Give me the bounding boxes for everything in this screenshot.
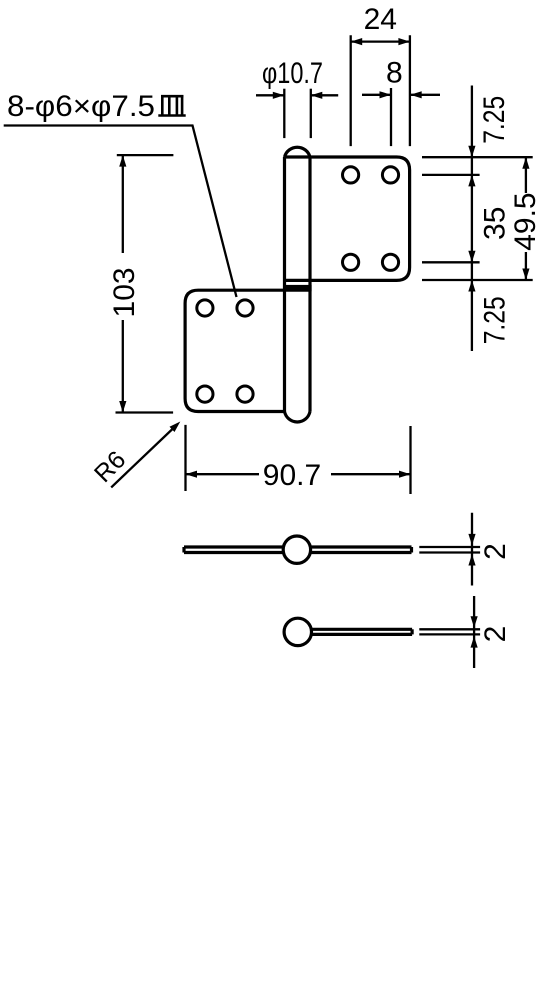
dimension 24 line	[351, 40, 410, 42]
svg-text:24: 24	[364, 3, 397, 36]
right extension line upper hole row	[422, 174, 480, 176]
hole top-leaf lower-left	[343, 254, 359, 270]
top leaf (flag plate) outline	[285, 157, 410, 280]
hole top-leaf upper-right	[382, 167, 398, 183]
svg-text:49.5: 49.5	[509, 192, 542, 250]
svg-text:7.25: 7.25	[478, 96, 511, 144]
svg-text:R6: R6	[89, 446, 131, 488]
svg-text:2: 2	[479, 626, 512, 643]
hole bottom-leaf lower-left	[197, 386, 213, 402]
section view 1 knuckle circle	[283, 536, 310, 563]
knuckle right edge	[308, 157, 311, 412]
hole top-leaf upper-left	[343, 167, 359, 183]
dimension 49.5 line	[525, 157, 527, 193]
dimension 103 extension lines	[117, 154, 174, 156]
section view 1 thickness 2 extension lines	[419, 546, 480, 548]
svg-text:8-φ6×φ7.5: 8-φ6×φ7.5	[7, 90, 155, 123]
svg-text:8: 8	[386, 57, 403, 90]
svg-text:35: 35	[479, 207, 512, 240]
countersunk (sara) symbol	[158, 95, 185, 116]
svg-text:2: 2	[479, 543, 512, 560]
knuckle top cap arc	[285, 147, 311, 157]
section view 2: flag leaf seen from end	[312, 628, 413, 631]
section view 1 thickness 2 dimension line	[471, 513, 473, 586]
section view 2 thickness 2 dimension line	[473, 596, 475, 668]
dimension 24 extension lines	[350, 35, 352, 146]
section view 2 thickness 2 extension lines	[419, 628, 480, 630]
dimension 8 line with outside arrows	[362, 94, 391, 96]
dimension 8 extension line	[390, 88, 392, 146]
dimension 103 line	[122, 155, 124, 253]
svg-text:7.25: 7.25	[479, 296, 512, 344]
radius R6 leader arrow	[111, 429, 173, 488]
dimension 90.7 extension lines	[184, 425, 186, 491]
bottom leaf outline	[185, 290, 310, 411]
hole bottom-leaf upper-right	[237, 300, 253, 316]
svg-text:90.7: 90.7	[263, 459, 321, 492]
dimension 90.7 line	[186, 473, 260, 475]
hole top-leaf lower-right	[382, 254, 398, 270]
right extension line plate bottom	[422, 279, 533, 281]
right extension line plate top	[422, 156, 533, 158]
dimension phi10.7 line with outside arrows	[256, 94, 284, 96]
hole bottom-leaf lower-right	[237, 386, 253, 402]
knuckle left edge	[283, 157, 286, 412]
section view 2 knuckle circle	[284, 618, 311, 645]
right dimension line (7.25 / 35 / 7.25)	[471, 86, 473, 352]
svg-text:103: 103	[108, 267, 141, 317]
leader line to hole	[4, 126, 237, 298]
section view 1: full hinge seen from end	[184, 545, 412, 548]
knuckle bottom cap arc	[285, 412, 311, 422]
hole bottom-leaf upper-left	[197, 300, 213, 316]
right extension line lower hole row	[422, 261, 480, 263]
knuckle split bar	[283, 285, 312, 291]
svg-text:φ10.7: φ10.7	[262, 57, 323, 90]
dimension phi10.7 extension lines	[283, 89, 285, 138]
